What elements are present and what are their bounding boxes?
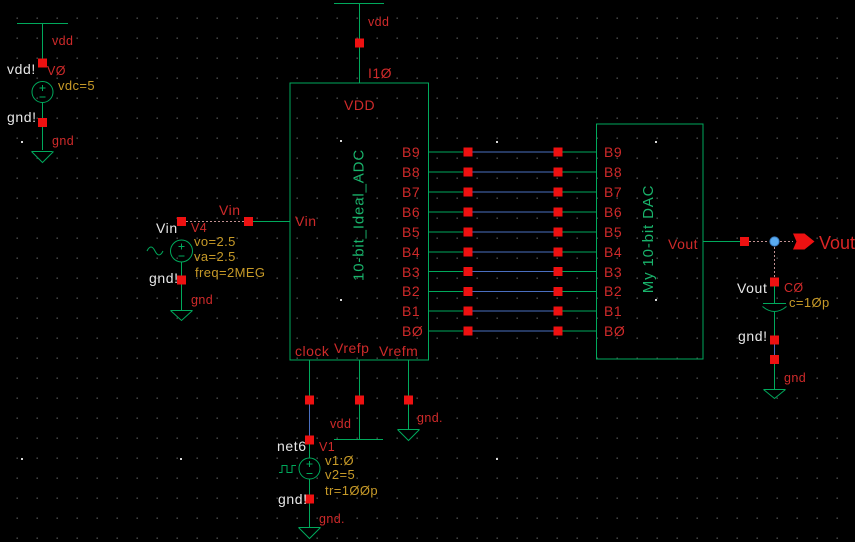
- svg-text:Vrefm: Vrefm: [379, 343, 418, 359]
- svg-text:c=1Øp: c=1Øp: [789, 295, 830, 310]
- wire V0 minus to gnd: [42, 103, 44, 151]
- sine glyph: [147, 247, 163, 255]
- net label vdd (top middle): [368, 15, 389, 29]
- junction square B0 right: [554, 327, 563, 336]
- bus bit B8 : wire ADC out: [429, 171, 464, 173]
- svg-text:gnd!: gnd!: [7, 109, 37, 125]
- wire B7 DAC in: [563, 191, 597, 193]
- svg-text:freq=2MEG: freq=2MEG: [195, 265, 265, 280]
- bus bit B4 : wire ADC out: [429, 251, 464, 253]
- wire B5 DAC in: [563, 231, 597, 233]
- value label v1:0: [325, 453, 354, 468]
- svg-text:gnd: gnd: [191, 293, 213, 307]
- ground symbol (V1): [299, 528, 321, 539]
- pin label B7 (ADC): [402, 184, 420, 200]
- pin label B2 (DAC): [604, 283, 622, 299]
- blue wire segment (clock net): [309, 405, 311, 437]
- wire B9 DAC in: [563, 151, 597, 153]
- bus bit B9 : wire ADC out: [429, 151, 464, 153]
- instance label C0: [784, 281, 804, 295]
- net label vdd!: [7, 61, 36, 77]
- pin label B8 (ADC): [402, 164, 420, 180]
- wire C0 bottom to gnd: [774, 312, 776, 389]
- pin label Vrefm: [379, 343, 418, 359]
- pin square C0 bottom: [770, 336, 779, 345]
- svg-text:gnd.: gnd.: [417, 411, 443, 425]
- output pin symbol Vout: [793, 234, 815, 250]
- net label vdd (Vrefp): [330, 417, 351, 431]
- wire ADC Vrefm down: [408, 360, 410, 429]
- power symbol vdd (Vrefp): [334, 439, 383, 441]
- svg-text:V1: V1: [319, 440, 335, 454]
- svg-text:B5: B5: [604, 224, 622, 240]
- origin markers: [21, 140, 657, 460]
- pin square Vout wire: [740, 237, 749, 246]
- junction square B7 left: [464, 188, 473, 197]
- pin label clock: [295, 343, 330, 359]
- junction square B4 left: [464, 248, 473, 257]
- pin label Vrefp: [334, 340, 369, 356]
- wire B4 DAC in: [563, 251, 597, 253]
- svg-text:B1: B1: [604, 303, 622, 319]
- voltage source V1: [299, 458, 320, 479]
- svg-text:net6: net6: [277, 438, 307, 454]
- junction square B4 right: [554, 248, 563, 257]
- pin label B4 (DAC): [604, 244, 622, 260]
- dashed wire V4 to junction: [186, 221, 244, 223]
- wire B1 DAC in: [563, 310, 597, 312]
- net label net6: [277, 438, 307, 454]
- pin square V4 plus: [177, 217, 186, 226]
- net label gnd! (V4): [149, 270, 179, 286]
- net label gnd. (Vrefm): [417, 411, 443, 425]
- svg-text:clock: clock: [295, 343, 330, 359]
- svg-text:B9: B9: [402, 144, 420, 160]
- svg-text:BØ: BØ: [604, 323, 625, 339]
- svg-text:gnd!: gnd!: [738, 328, 768, 344]
- pin square Vrefp: [355, 396, 364, 405]
- svg-text:Vout: Vout: [668, 236, 698, 252]
- net label gnd! (C0): [738, 328, 768, 344]
- pin square Vrefm: [404, 396, 413, 405]
- svg-text:10-bit_Ideal_ADC: 10-bit_Ideal_ADC: [351, 149, 368, 281]
- svg-text:Vout: Vout: [737, 280, 767, 296]
- voltage source V0: [32, 82, 53, 103]
- svg-text:B4: B4: [402, 244, 420, 260]
- pin square clock: [305, 396, 314, 405]
- bus bit B5 : wire ADC out: [429, 231, 464, 233]
- value label c=10p: [789, 295, 830, 310]
- svg-text:VDD: VDD: [344, 97, 375, 113]
- block name My 10-bit DAC: [640, 185, 657, 294]
- bus wire B5: [473, 231, 554, 233]
- bus wire B9: [473, 151, 554, 153]
- pin label B3 (DAC): [604, 264, 622, 280]
- wire V1 minus to gnd: [309, 479, 311, 527]
- net label gnd! (V1): [278, 491, 308, 507]
- wire B8 DAC in: [563, 171, 597, 173]
- pin label Vin (ADC): [295, 213, 316, 229]
- junction square B1 left: [464, 307, 473, 316]
- pin square ADC VDD: [355, 39, 364, 48]
- net label Vout (white): [737, 280, 767, 296]
- junction square B5 left: [464, 228, 473, 237]
- wire B3 DAC in: [563, 271, 597, 273]
- svg-text:gnd: gnd: [784, 371, 806, 385]
- junction square B2 right: [554, 287, 563, 296]
- pin square V0 minus: [38, 118, 47, 127]
- pin label B3 (ADC): [402, 264, 420, 280]
- junction square B2 left: [464, 287, 473, 296]
- pin label B8 (DAC): [604, 164, 622, 180]
- pin square V1 minus: [305, 495, 314, 504]
- svg-text:vdd: vdd: [52, 34, 73, 48]
- ground symbol (Vrefm): [398, 430, 420, 441]
- pin label B7 (DAC): [604, 184, 622, 200]
- svg-text:B6: B6: [604, 204, 622, 220]
- junction square B9 right: [554, 148, 563, 157]
- svg-text:Vin: Vin: [156, 220, 178, 236]
- svg-text:B9: B9: [604, 144, 622, 160]
- junction square B1 right: [554, 307, 563, 316]
- value label va=2.5: [194, 249, 236, 264]
- junction square B3 left: [464, 267, 473, 276]
- wire B0 DAC in: [563, 330, 597, 332]
- value label v2=5: [325, 467, 355, 482]
- svg-text:va=2.5: va=2.5: [194, 249, 236, 264]
- block name 10-bit_Ideal_ADC: [351, 149, 368, 281]
- dashed wire node to C0: [774, 247, 776, 277]
- svg-text:gnd!: gnd!: [278, 491, 308, 507]
- junction square B8 right: [554, 168, 563, 177]
- svg-text:My 10-bit DAC: My 10-bit DAC: [640, 185, 657, 294]
- wire junction to ADC Vin pin: [253, 221, 290, 223]
- svg-text:vo=2.5: vo=2.5: [194, 234, 236, 249]
- junction square B6 right: [554, 208, 563, 217]
- node Vout (solder dot): [770, 237, 779, 246]
- bus bit B2 : wire ADC out: [429, 291, 464, 293]
- svg-text:tr=1ØØp: tr=1ØØp: [325, 483, 378, 498]
- junction square B0 left: [464, 327, 473, 336]
- svg-text:Vin: Vin: [219, 202, 240, 218]
- pin label B0 (ADC): [402, 323, 423, 339]
- wire vdd bar to ADC VDD pin: [359, 4, 361, 84]
- bus wire B4: [473, 251, 554, 253]
- svg-text:B8: B8: [604, 164, 622, 180]
- dashed wire to node: [749, 241, 769, 243]
- pin label B9 (ADC): [402, 144, 420, 160]
- bus wire B7: [473, 191, 554, 193]
- bus bit B1 : wire ADC out: [429, 310, 464, 312]
- bus wire B8: [473, 171, 554, 173]
- value label vo=2.5: [194, 234, 236, 249]
- svg-text:B4: B4: [604, 244, 622, 260]
- svg-text:CØ: CØ: [784, 281, 804, 295]
- junction square B5 right: [554, 228, 563, 237]
- svg-text:BØ: BØ: [402, 323, 423, 339]
- svg-text:B2: B2: [402, 283, 420, 299]
- pin label B5 (ADC): [402, 224, 420, 240]
- bus bit B6 : wire ADC out: [429, 211, 464, 213]
- bus wire B6: [473, 211, 554, 213]
- instance label I10: [368, 65, 392, 81]
- pin label B5 (DAC): [604, 224, 622, 240]
- svg-text:gnd: gnd: [52, 134, 74, 148]
- power symbol vdd (top middle): [334, 3, 384, 5]
- svg-text:vdd: vdd: [330, 417, 351, 431]
- ADC block I10 outline: [290, 83, 429, 360]
- wire net6 to V1: [309, 444, 311, 458]
- svg-text:B1: B1: [402, 303, 420, 319]
- svg-text:gnd!: gnd!: [149, 270, 179, 286]
- wire ADC clock down: [309, 360, 311, 400]
- svg-text:Vout: Vout: [819, 233, 855, 253]
- pin square V4 minus: [177, 276, 186, 285]
- pin label Vout (DAC): [668, 236, 698, 252]
- svg-text:B6: B6: [402, 204, 420, 220]
- bus wire B1: [473, 310, 554, 312]
- capacitor C0: [763, 304, 787, 312]
- pin square gnd wire: [770, 355, 779, 364]
- wire DAC Vout out: [703, 241, 740, 243]
- svg-text:B8: B8: [402, 164, 420, 180]
- ground symbol (C0): [764, 390, 786, 399]
- svg-text:vdd: vdd: [368, 15, 389, 29]
- svg-text:vdd!: vdd!: [7, 61, 36, 77]
- svg-text:B3: B3: [402, 264, 420, 280]
- svg-text:B2: B2: [604, 283, 622, 299]
- svg-text:VØ: VØ: [47, 64, 66, 78]
- bus wire B2: [473, 291, 554, 293]
- net label vdd (V0 branch): [52, 34, 73, 48]
- bus bit B0 : wire ADC out: [429, 330, 464, 332]
- pin label B6 (ADC): [402, 204, 420, 220]
- svg-text:B7: B7: [402, 184, 420, 200]
- pin label B4 (ADC): [402, 244, 420, 260]
- net label gnd!: [7, 109, 37, 125]
- junction square B3 right: [554, 267, 563, 276]
- pin label B9 (DAC): [604, 144, 622, 160]
- net label Vin (red, wire): [219, 202, 240, 218]
- junction square net6: [305, 436, 314, 445]
- svg-text:Vrefp: Vrefp: [334, 340, 369, 356]
- net label gnd (V4): [191, 293, 213, 307]
- value label tr=100p: [325, 483, 378, 498]
- svg-text:B7: B7: [604, 184, 622, 200]
- bus bit B7 : wire ADC out: [429, 191, 464, 193]
- svg-text:vdc=5: vdc=5: [58, 78, 95, 93]
- bus bit B3 : wire ADC out: [429, 271, 464, 273]
- value label freq=2MEG: [195, 265, 265, 280]
- svg-text:gnd.: gnd.: [319, 512, 345, 526]
- wire vdd bar to V0 plus pin: [42, 24, 44, 61]
- power symbol vdd (V0 branch): [17, 23, 68, 25]
- pin label B0 (DAC): [604, 323, 625, 339]
- wire B2 DAC in: [563, 291, 597, 293]
- pin label B1 (DAC): [604, 303, 622, 319]
- wire V4 minus to gnd: [181, 262, 183, 310]
- svg-text:V4: V4: [191, 221, 207, 235]
- dashed wire node to output pin: [780, 241, 793, 243]
- ground symbol (V0 branch): [32, 152, 54, 163]
- pin square C0 top: [770, 278, 779, 287]
- instance label V1: [319, 440, 335, 454]
- instance label V0: [47, 64, 66, 78]
- pin label B1 (ADC): [402, 303, 420, 319]
- svg-text:v1:Ø: v1:Ø: [325, 453, 354, 468]
- junction square B8 left: [464, 168, 473, 177]
- net label gnd (C0): [784, 371, 806, 385]
- bus wire B0: [473, 330, 554, 332]
- pin label VDD: [344, 97, 375, 113]
- wire B6 DAC in: [563, 211, 597, 213]
- wire ADC Vrefp down: [359, 360, 361, 439]
- net label Vout (red): [819, 233, 855, 253]
- pin label B2 (ADC): [402, 283, 420, 299]
- svg-text:v2=5: v2=5: [325, 467, 355, 482]
- ground symbol (V4): [171, 311, 193, 321]
- voltage source V4: [171, 240, 193, 262]
- sine source V4 : net label Vin (white): [156, 220, 178, 236]
- pin label B6 (DAC): [604, 204, 622, 220]
- junction square B9 left: [464, 148, 473, 157]
- junction square Vin: [244, 217, 253, 226]
- svg-text:Vin: Vin: [295, 213, 316, 229]
- pin square V0 plus: [38, 59, 47, 68]
- pulse glyph: [279, 466, 296, 473]
- wire C0 top: [774, 286, 776, 303]
- svg-text:B5: B5: [402, 224, 420, 240]
- junction square B7 right: [554, 188, 563, 197]
- junction square B6 left: [464, 208, 473, 217]
- DAC block outline: [597, 124, 704, 359]
- net label gnd (V0 branch): [52, 134, 74, 148]
- instance label V4: [191, 221, 207, 235]
- value label vdc=5: [58, 78, 95, 93]
- svg-text:I1Ø: I1Ø: [368, 65, 392, 81]
- bus wire B3: [473, 271, 554, 273]
- blue wire segment (C0 gnd): [774, 345, 776, 356]
- net label gnd. (V1): [319, 512, 345, 526]
- svg-text:B3: B3: [604, 264, 622, 280]
